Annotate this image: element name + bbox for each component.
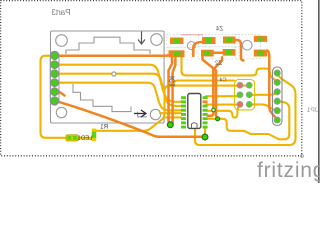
- SMD resistor P2: [202, 37, 216, 44]
- connector pad-field outline: [50, 51, 59, 105]
- IC right pads: [203, 96, 208, 128]
- silkscreen: connector CON1 outline: [51, 31, 165, 123]
- svg-text:Part3: Part3: [51, 8, 71, 17]
- via near x=214: [212, 108, 216, 112]
- IC left pads: [181, 96, 186, 128]
- wire: P2 left pad down through C? circle: [193, 42, 202, 56]
- U2 opto (6 pads in yellow body): [235, 80, 255, 110]
- wire: P5-P6 link: [214, 51, 223, 54]
- resistor R1 (vertical SMD): [92, 129, 96, 142]
- svg-text:C4: C4: [219, 78, 226, 84]
- svg-text:LED1: LED1: [77, 136, 93, 142]
- wire: P6 left pad down, cross left, vertical x=213.3: [213, 57, 222, 107]
- mounting hole bottom-left: [56, 107, 66, 117]
- silkscreen dashed boxes around SMD rows: [167, 35, 240, 61]
- svg-text:JP1: JP1: [306, 107, 318, 114]
- wire: IC pad R3 to U2 pad L3: [206, 103, 240, 105]
- wire: conn pad1 to P4 left pad: [55, 54, 171, 56]
- via on pad3 wire: [112, 72, 116, 76]
- wire: pad1 left loop down to LED: [41, 56, 69, 138]
- wire: IC bottom notch down and right, outer loop to header pad2: [195, 75, 296, 145]
- inner step right low: [138, 112, 147, 117]
- inner stepped outline bottom: [73, 84, 131, 112]
- SMD resistor P4: [169, 50, 185, 57]
- right arrow: [134, 110, 146, 117]
- pad 3: [51, 70, 59, 78]
- SMD resistor P8: [254, 50, 267, 57]
- SMD resistor P5: [201, 50, 214, 57]
- wire: IC pad R5 stub to via: [208, 110, 214, 116]
- mounting hole top-right: [151, 34, 163, 46]
- via V2: [216, 117, 220, 121]
- wire: P5 bottom down, cross right, vertical x=216: [203, 57, 217, 116]
- wire: P3 right pad down to via: [236, 40, 244, 61]
- capacitor C1 dashed outline: [235, 34, 260, 59]
- wire: U2 pad R2 to header pad3: [249, 92, 277, 95]
- pad 4: [51, 79, 59, 87]
- canvas corner resize dot: [301, 155, 304, 158]
- window right edge: [318, 0, 320, 183]
- wire: U2 pad R3 to header pad5: [249, 104, 277, 110]
- wire: conn pad5 stub joining diagonal: [55, 92, 65, 96]
- pad 2: [51, 61, 59, 69]
- SMD resistor P7: [254, 36, 267, 42]
- wire: P8 right to header pad6: [267, 51, 277, 119]
- svg-text:R1: R1: [100, 125, 108, 131]
- wire: P4 right pad down then right to header pad1: [182, 58, 278, 83]
- IC notch: [192, 123, 198, 128]
- wire: conn pad6 long diagonal to pad B2: [55, 101, 205, 137]
- capacitor C4 body circle: [187, 42, 195, 50]
- down arrow: [138, 32, 145, 45]
- wire: IC pad R4 small U-turn up to U2 pad L3: [208, 105, 240, 118]
- canvas border: [1, 1, 302, 156]
- SMD resistor P6: [223, 49, 236, 56]
- SMD resistor P1: [170, 38, 184, 45]
- IC1 body: [188, 94, 201, 129]
- wire: P4 bottom down to near pad A: [173, 58, 176, 124]
- wire: P4 left pad down to pad A: [169, 58, 173, 125]
- wire: short feed IC pad L6: [165, 116, 181, 118]
- wire: conn pad3 to IC pad L3 (with via): [55, 74, 181, 106]
- SMD resistor P3: [223, 37, 236, 44]
- svg-text:Z2: Z2: [214, 61, 222, 67]
- wire: LED right pad to R1 bottom: [75, 137, 95, 139]
- pad 1: [51, 52, 59, 60]
- pad 5: [51, 88, 59, 96]
- wire: R1 top up along connector edge to U2 pad R1: [94, 86, 249, 131]
- ratsnest line: [181, 34, 203, 36]
- mounting hole bottom-right: [150, 109, 160, 119]
- inner stepped outline top: [66, 37, 150, 54]
- wire: conn pad2 to IC pad L2: [55, 65, 181, 102]
- capacitor C1 body circle: [242, 40, 252, 50]
- wire: IC pad R6 loop to header pad4: [208, 101, 290, 139]
- through-hole pad A: [167, 122, 173, 128]
- wire: y=80.5 line to U2 area: [171, 81, 234, 87]
- svg-text:Z4: Z4: [215, 27, 223, 33]
- connector pads (6 green circles): [51, 52, 59, 105]
- LED1: [66, 135, 78, 141]
- pad 6: [51, 97, 59, 105]
- svg-text:IC1: IC1: [170, 76, 177, 87]
- wire: IC pad R1 to U2 pad L2: [206, 95, 240, 96]
- fritzing watermark: [257, 159, 320, 183]
- through-hole pad B2: [202, 134, 208, 140]
- header JP1 (6 pads): [273, 67, 283, 126]
- wire: pad B2 up to IC pad R8: [204, 128, 206, 136]
- wire: conn pad4 to IC pad L4: [55, 83, 181, 111]
- mounting hole top-left: [56, 35, 68, 47]
- wire: short feed IC pad L5: [160, 112, 181, 114]
